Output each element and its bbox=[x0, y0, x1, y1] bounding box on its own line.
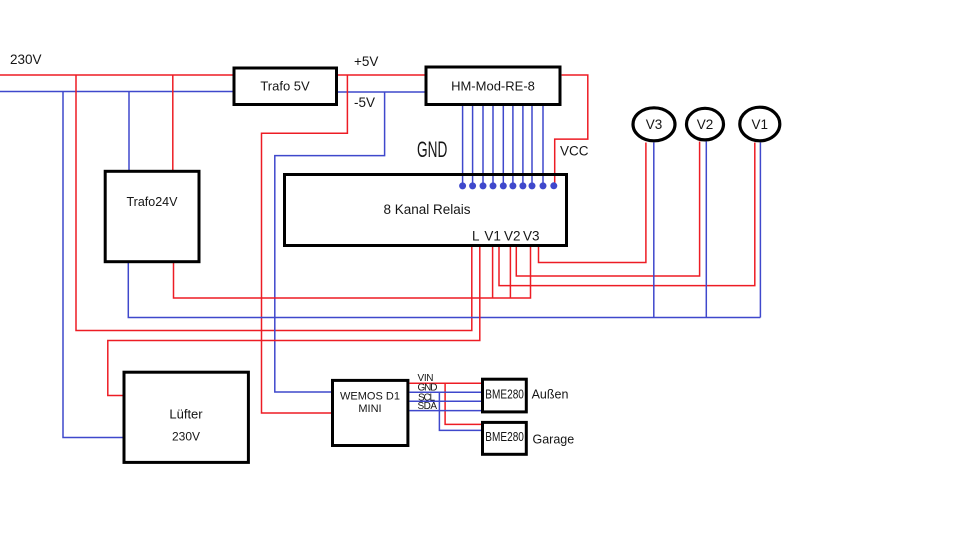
wire HM-Mod output 4 bbox=[492, 106, 494, 184]
wire relais stub to 24V bus b bbox=[509, 247, 511, 298]
microcontroller WEMOS D1 MINI bbox=[333, 380, 408, 445]
wire HM-Mod output 6 bbox=[512, 106, 514, 184]
wire GND branch to BME280 Garage bbox=[439, 392, 481, 430]
wire HM-Mod output 1 bbox=[462, 106, 464, 184]
svg-text:Trafo24V: Trafo24V bbox=[127, 195, 179, 209]
transformer Trafo 5V bbox=[234, 68, 337, 105]
svg-text:GND: GND bbox=[417, 137, 447, 162]
svg-text:V2: V2 bbox=[504, 229, 521, 244]
svg-text:Trafo 5V: Trafo 5V bbox=[260, 79, 310, 94]
wire HM-Mod output 9 bbox=[542, 106, 544, 184]
node relais pin dot 2 bbox=[469, 182, 476, 189]
module HM-Mod-RE-8 bbox=[426, 67, 560, 105]
wire live drop to Trafo24V bbox=[172, 75, 174, 170]
wire HM-Mod output 2 bbox=[472, 106, 474, 184]
node relais pin dot 8 bbox=[529, 182, 536, 189]
node relais pin dot 5 bbox=[500, 182, 507, 189]
svg-text:WEMOS D1: WEMOS D1 bbox=[340, 391, 400, 403]
svg-text:Lüfter: Lüfter bbox=[169, 407, 203, 422]
valve V3 bbox=[633, 108, 675, 141]
wire HM-Mod output 3 bbox=[482, 106, 484, 184]
svg-text:V2: V2 bbox=[697, 117, 714, 132]
relay board 8 Kanal Relais bbox=[285, 175, 567, 246]
svg-text:Garage: Garage bbox=[533, 433, 575, 447]
node relais pin dot 7 bbox=[519, 182, 526, 189]
wire WEMOS VIN to BME280 Aussen bbox=[409, 382, 481, 384]
node relais pin dot 9 bbox=[540, 182, 547, 189]
wire WEMOS SCL to BME280 Aussen bbox=[409, 400, 481, 402]
fan Luefter 230V bbox=[124, 372, 248, 462]
wire -5V branch down to WEMOS GND bbox=[275, 92, 385, 392]
wire live drop to relais L bbox=[76, 75, 472, 331]
svg-text:MINI: MINI bbox=[358, 403, 381, 415]
svg-text:V1: V1 bbox=[752, 117, 769, 132]
wire 230V neutral horizontal to Trafo 5V bbox=[0, 91, 233, 93]
wire +5V branch down to WEMOS VIN bbox=[262, 75, 348, 413]
svg-text:L: L bbox=[472, 229, 480, 244]
svg-text:V3: V3 bbox=[646, 117, 663, 132]
node relais pin dot 1 bbox=[459, 182, 466, 189]
wire WEMOS SDA to BME280 Aussen bbox=[409, 410, 481, 412]
wire neutral drop to Trafo24V bbox=[128, 92, 130, 171]
svg-text:+5V: +5V bbox=[354, 54, 378, 69]
wire WEMOS GND to BME280 Aussen bbox=[409, 391, 481, 393]
wire Trafo24V neutral bus to valves bbox=[128, 263, 760, 318]
svg-text:230V: 230V bbox=[172, 430, 200, 444]
wire Trafo24V live out to relais bus bbox=[174, 247, 531, 298]
valve V1 bbox=[740, 107, 780, 141]
svg-text:HM-Mod-RE-8: HM-Mod-RE-8 bbox=[451, 79, 535, 94]
node relais pin dot 4 bbox=[490, 182, 497, 189]
wire valve V3 neutral bbox=[653, 143, 655, 318]
svg-text:V1: V1 bbox=[484, 229, 501, 244]
svg-text:SDA: SDA bbox=[418, 401, 438, 412]
wire 230V live horizontal to Trafo 5V bbox=[0, 74, 233, 76]
wire relais to valve V3 bbox=[539, 143, 646, 263]
wire +5V Trafo5V to HM-Mod bbox=[338, 74, 425, 76]
wire neutral drop to Luefter bbox=[63, 92, 123, 438]
svg-text:8 Kanal Relais: 8 Kanal Relais bbox=[383, 202, 470, 217]
valve V2 bbox=[687, 108, 724, 140]
node relais pin dot 3 bbox=[480, 182, 487, 189]
node relais pin dot 10 VCC bbox=[550, 182, 557, 189]
svg-text:Außen: Außen bbox=[532, 387, 569, 401]
wire valve V2 neutral bbox=[705, 142, 707, 318]
wire valve V1 neutral bbox=[759, 143, 761, 318]
svg-text:BME280: BME280 bbox=[485, 430, 524, 444]
sensor BME280 Aussen bbox=[483, 379, 527, 412]
transformer Trafo24V bbox=[105, 171, 199, 261]
wire -5V Trafo5V to HM-Mod bbox=[338, 91, 425, 93]
wire relais to valve V1 bbox=[499, 143, 755, 286]
wire relais to valve V2 bbox=[516, 142, 699, 277]
wire VCC from HM-Mod right to relais pin bbox=[555, 75, 588, 184]
svg-text:BME280: BME280 bbox=[485, 387, 524, 401]
wire VIN branch to BME280 Garage bbox=[445, 383, 482, 424]
svg-text:230V: 230V bbox=[10, 52, 42, 67]
wire HM-Mod output 7 bbox=[522, 106, 524, 184]
svg-text:-5V: -5V bbox=[354, 95, 375, 110]
wire HM-Mod output 8 bbox=[531, 106, 533, 184]
svg-text:V3: V3 bbox=[523, 229, 540, 244]
sensor BME280 Garage bbox=[483, 422, 527, 454]
node relais pin dot 6 bbox=[509, 182, 516, 189]
wire HM-Mod output 5 bbox=[502, 106, 504, 184]
wire relais switched live to Luefter bbox=[108, 247, 480, 396]
svg-text:VCC: VCC bbox=[560, 144, 589, 159]
wire relais stub to 24V bus a bbox=[492, 247, 494, 298]
